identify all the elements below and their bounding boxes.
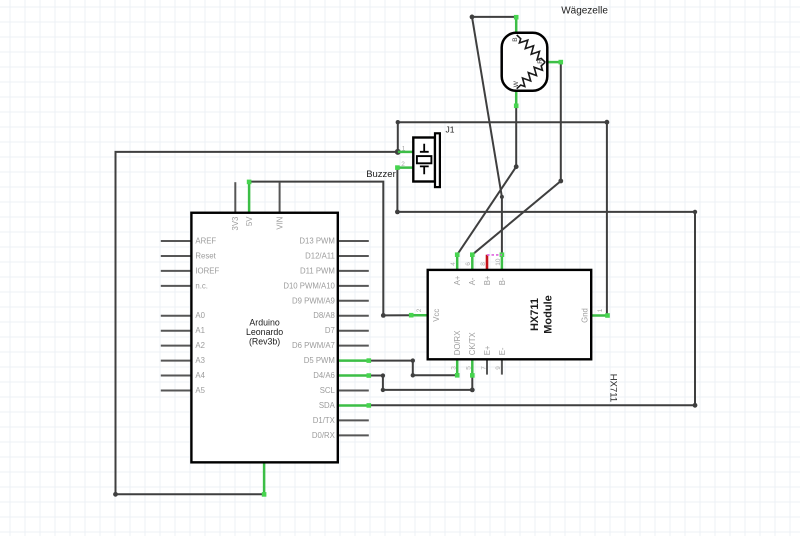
svg-text:D12/A11: D12/A11 xyxy=(305,251,335,260)
svg-text:3: 3 xyxy=(451,366,458,370)
svg-text:HX711: HX711 xyxy=(608,374,619,402)
svg-text:D13 PWM: D13 PWM xyxy=(299,237,335,246)
svg-text:3V3: 3V3 xyxy=(231,217,240,231)
svg-text:6: 6 xyxy=(465,262,472,266)
svg-text:Leonardo: Leonardo xyxy=(246,327,283,337)
svg-text:2: 2 xyxy=(401,161,405,168)
svg-text:5V: 5V xyxy=(245,216,254,226)
svg-text:B: B xyxy=(512,37,519,41)
svg-text:Arduino: Arduino xyxy=(249,317,279,327)
svg-text:n.c.: n.c. xyxy=(195,281,208,290)
svg-text:W: W xyxy=(513,80,520,87)
svg-text:D8/A8: D8/A8 xyxy=(313,311,335,320)
svg-text:D6 PWM/A7: D6 PWM/A7 xyxy=(292,341,335,350)
svg-text:D10 PWM/A10: D10 PWM/A10 xyxy=(283,281,335,290)
svg-text:A1: A1 xyxy=(195,326,205,335)
svg-text:D9 PWM/A9: D9 PWM/A9 xyxy=(292,296,335,305)
svg-text:J1: J1 xyxy=(446,124,455,134)
svg-text:Reset: Reset xyxy=(195,251,216,260)
svg-text:D4/A6: D4/A6 xyxy=(313,371,335,380)
svg-text:Wägezelle: Wägezelle xyxy=(561,6,608,17)
svg-text:A4: A4 xyxy=(195,371,205,380)
svg-text:SDA: SDA xyxy=(319,401,336,410)
svg-text:SCL: SCL xyxy=(320,386,336,395)
svg-text:1: 1 xyxy=(597,308,604,312)
svg-text:D7: D7 xyxy=(325,326,335,335)
svg-text:A5: A5 xyxy=(195,386,205,395)
svg-text:DO/RX: DO/RX xyxy=(453,330,462,355)
svg-text:1: 1 xyxy=(402,145,406,152)
svg-text:4: 4 xyxy=(450,262,457,266)
svg-text:E-: E- xyxy=(498,347,507,355)
svg-text:Gnd: Gnd xyxy=(580,308,589,323)
svg-text:D11 PWM: D11 PWM xyxy=(300,266,335,275)
svg-text:Vcc: Vcc xyxy=(432,309,441,322)
svg-text:D1/TX: D1/TX xyxy=(313,416,336,425)
svg-text:A3: A3 xyxy=(195,356,205,365)
svg-text:7: 7 xyxy=(480,366,487,370)
svg-text:D0/RX: D0/RX xyxy=(312,431,336,440)
svg-text:R: R xyxy=(537,59,544,64)
svg-text:E+: E+ xyxy=(483,345,492,355)
svg-text:A0: A0 xyxy=(195,311,205,320)
svg-text:5: 5 xyxy=(466,366,473,370)
svg-text:(Rev3b): (Rev3b) xyxy=(249,337,280,347)
svg-text:D5 PWM: D5 PWM xyxy=(304,356,335,365)
svg-text:B-: B- xyxy=(498,277,507,285)
svg-text:HX711: HX711 xyxy=(529,298,541,331)
svg-text:CK/TX: CK/TX xyxy=(468,332,477,356)
svg-text:VIN: VIN xyxy=(276,217,285,230)
svg-text:10: 10 xyxy=(495,258,502,266)
svg-text:AREF: AREF xyxy=(195,237,216,246)
svg-text:A+: A+ xyxy=(453,275,462,285)
svg-text:A-: A- xyxy=(468,277,477,285)
svg-text:2: 2 xyxy=(416,308,423,312)
svg-text:8: 8 xyxy=(480,262,487,266)
svg-text:Module: Module xyxy=(543,295,555,334)
svg-text:B+: B+ xyxy=(483,275,492,285)
svg-text:A2: A2 xyxy=(195,341,205,350)
svg-text:9: 9 xyxy=(495,366,502,370)
svg-text:IOREF: IOREF xyxy=(195,266,219,275)
svg-text:Buzzer: Buzzer xyxy=(366,169,396,180)
